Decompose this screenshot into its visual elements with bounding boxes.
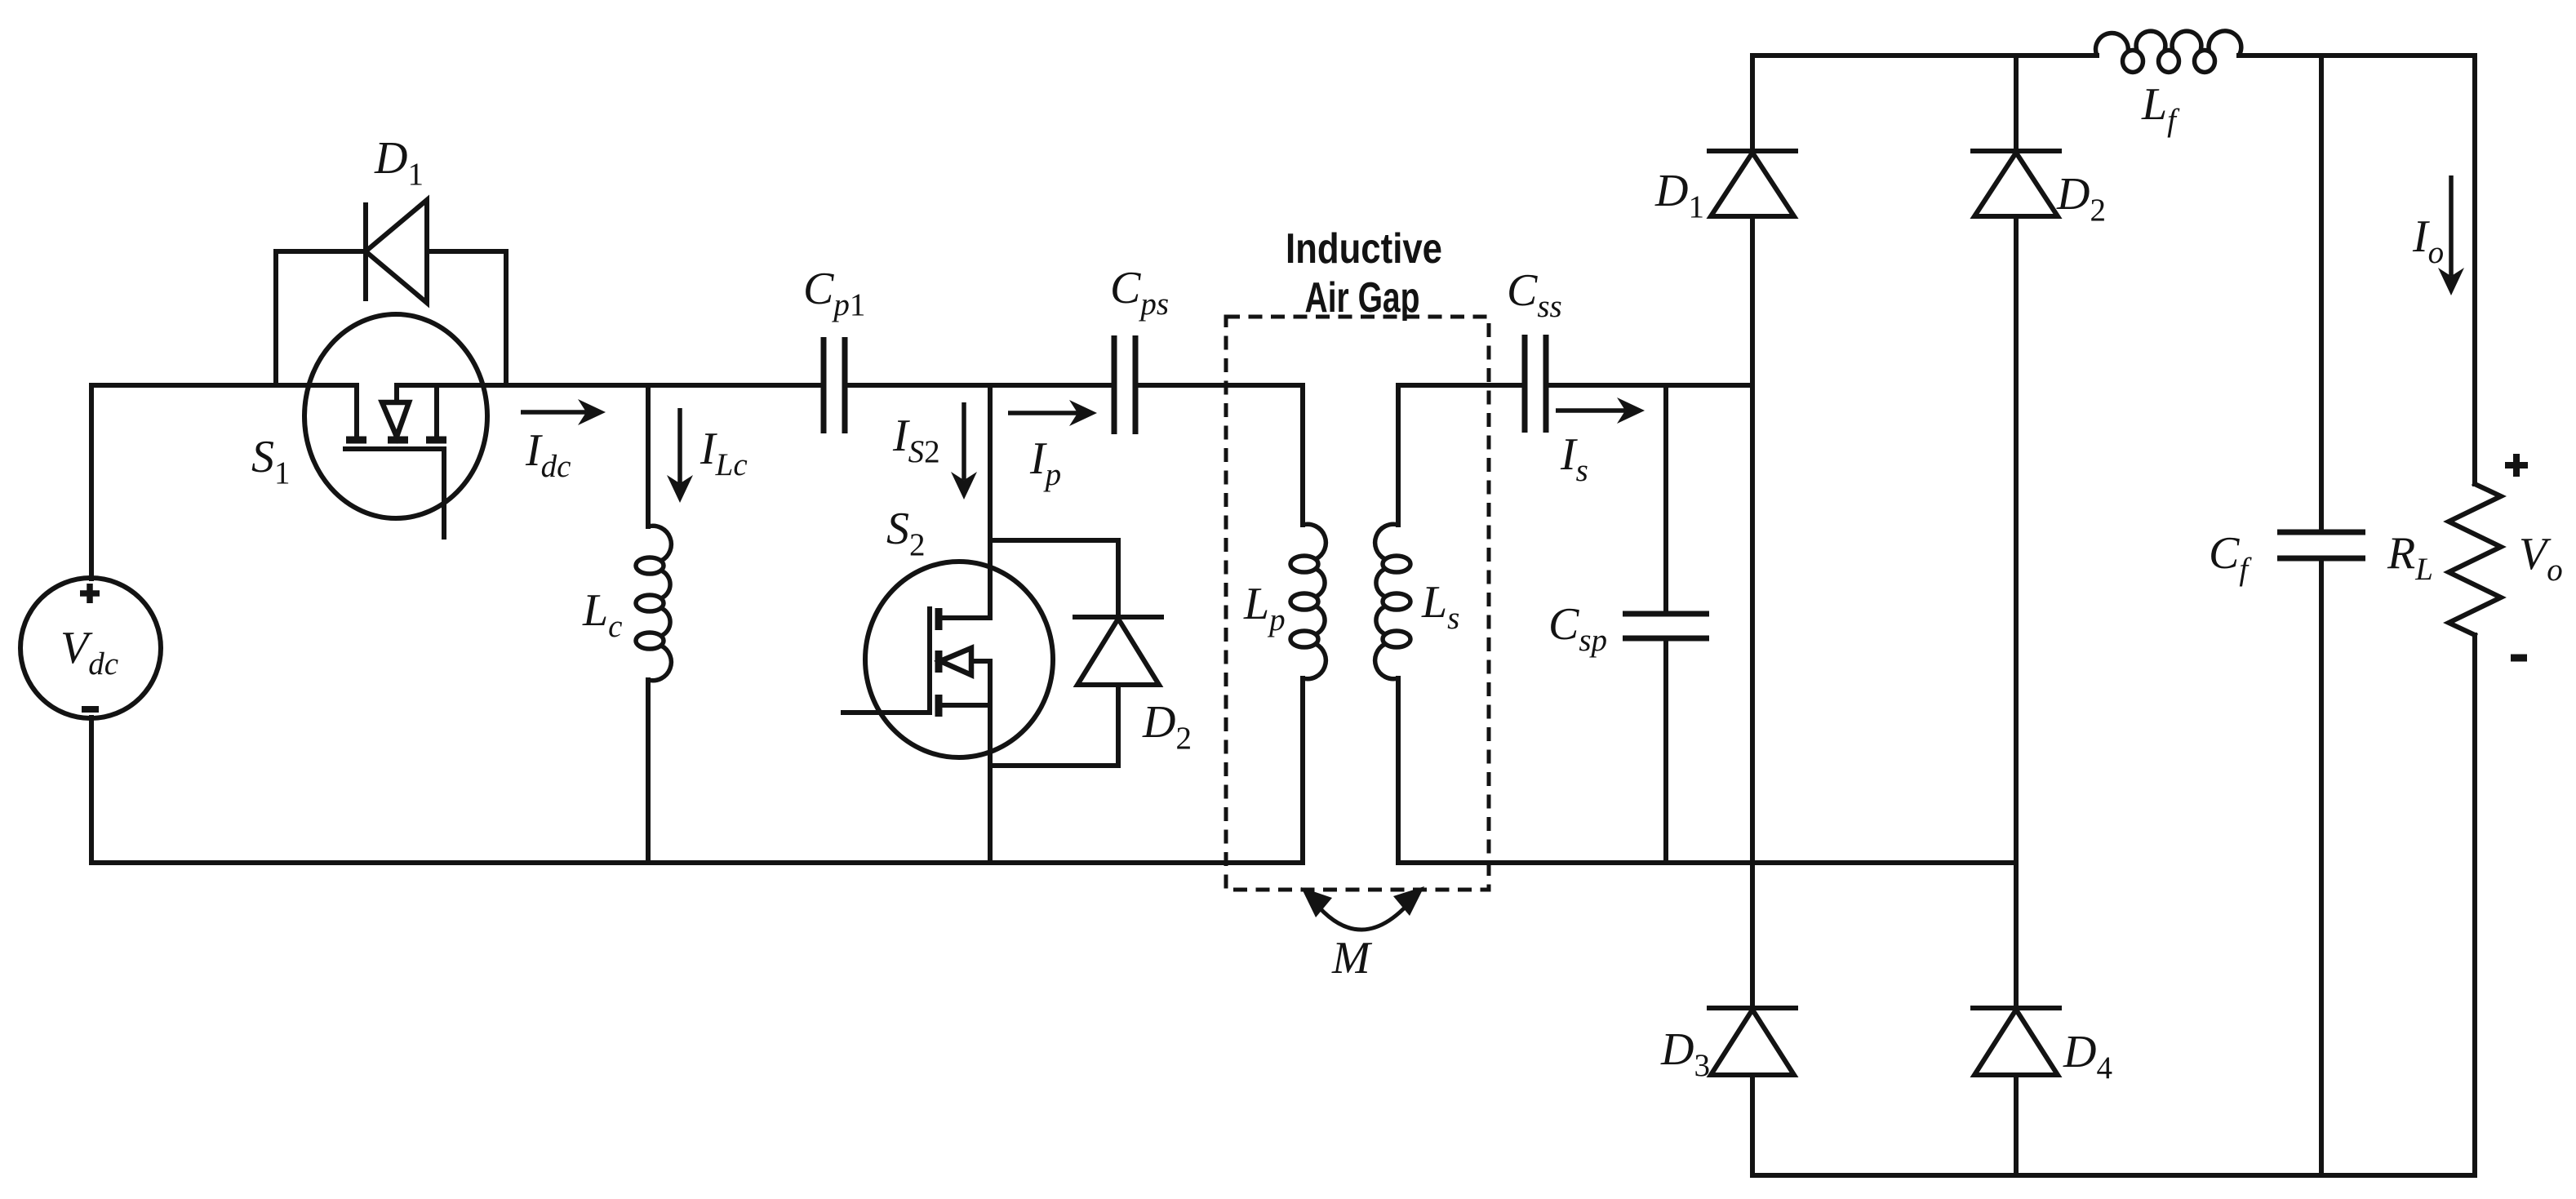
inductor Ls [1375, 524, 1410, 678]
wire [1396, 678, 1401, 863]
capacitor Cps [1114, 335, 1135, 434]
wire [990, 540, 1118, 619]
label D4 [2063, 1027, 2112, 1086]
wire [2472, 635, 2477, 1175]
diode D2 [1075, 617, 1161, 685]
current arrow IS2 [951, 402, 977, 500]
transistor S2 (MOSFET) [843, 562, 1053, 757]
capacitor Css [1525, 335, 1546, 433]
current arrow Idc [521, 399, 606, 425]
inductor Lp [1290, 524, 1326, 678]
label Inductive Air Gap [1286, 225, 1442, 322]
diode D2 (bridge) [1973, 151, 2059, 216]
svg-text:Inductive: Inductive [1286, 225, 1442, 273]
wire [646, 385, 651, 526]
diode D4 (bridge) [1973, 1008, 2059, 1075]
capacitor Cp1 [824, 337, 845, 433]
wire [1138, 383, 1303, 388]
mutual coupling arrow M [1301, 886, 1424, 930]
label D1 [374, 133, 424, 192]
label Cf [2209, 528, 2252, 587]
wire [1398, 383, 1523, 388]
wire [1398, 860, 2016, 865]
inductive air gap box [1226, 317, 1489, 890]
label ILc [700, 424, 748, 482]
wire [2014, 216, 2019, 1006]
wire [2239, 53, 2475, 58]
label Io [2412, 211, 2444, 270]
label Vdc [60, 623, 118, 682]
wire [2319, 561, 2324, 1175]
wire [988, 385, 993, 618]
wire [2319, 56, 2324, 530]
wire [1663, 385, 1668, 611]
wire [91, 385, 357, 579]
wire [988, 661, 993, 863]
wire [1396, 385, 1401, 525]
label Css [1507, 265, 1562, 324]
wire [847, 383, 1112, 388]
svg-text:M: M [1331, 933, 1373, 984]
label Is [1560, 429, 1588, 488]
wire [398, 383, 821, 388]
wire [89, 717, 94, 863]
voltage source Vdc [20, 578, 161, 718]
wire [2014, 1075, 2019, 1175]
current arrow Io [2438, 175, 2464, 295]
wire [427, 251, 506, 385]
label Idc [525, 425, 571, 484]
wire [276, 251, 364, 385]
wire [1663, 641, 1668, 863]
label Csp [1548, 599, 1607, 658]
label Vo [2519, 529, 2563, 588]
wire [2472, 56, 2477, 484]
label Ls [1421, 577, 1459, 636]
capacitor Csp [1623, 614, 1709, 638]
label RL [2387, 528, 2433, 587]
label Cp1 [803, 264, 865, 322]
plus sign output [2505, 454, 2528, 477]
label D2 (bridge) [2056, 169, 2106, 228]
current arrow ILc [667, 408, 693, 503]
resistor RL [2449, 484, 2501, 635]
wire [1300, 385, 1305, 525]
wire [1750, 56, 1755, 149]
current arrow Ip [1008, 400, 1097, 426]
capacitor Cf [2277, 532, 2365, 558]
diode D1 (bridge) [1709, 151, 1796, 216]
transistor S1 (MOSFET) [304, 314, 487, 537]
wire [91, 860, 1303, 865]
svg-text:Air Gap: Air Gap [1305, 274, 1420, 322]
label Lc [582, 585, 622, 644]
label D1 (bridge) [1654, 166, 1704, 224]
label M [1331, 933, 1373, 984]
diode D3 (bridge) [1709, 1008, 1796, 1075]
wire [1752, 53, 2097, 58]
wire [990, 685, 1118, 766]
current arrow Is [1556, 397, 1645, 424]
diode D1 [366, 200, 427, 303]
label Cps [1110, 263, 1169, 322]
wire [2014, 56, 2019, 149]
wire [1750, 216, 1755, 1006]
label Lf [2141, 79, 2180, 138]
label Ip [1029, 433, 1061, 492]
label S1 [251, 432, 291, 491]
wire [1300, 678, 1305, 863]
label Lp [1243, 579, 1286, 637]
wire [646, 680, 651, 863]
label IS2 [892, 411, 940, 469]
wire [1752, 1173, 2475, 1178]
label D3 [1660, 1024, 1710, 1083]
inductor Lc [636, 526, 671, 680]
minus sign output [2511, 655, 2527, 662]
inductor Lf [2096, 31, 2241, 73]
wire [1548, 383, 1752, 388]
wire [1750, 1075, 1755, 1175]
label D2 [1142, 697, 1192, 756]
label S2 [886, 504, 926, 562]
